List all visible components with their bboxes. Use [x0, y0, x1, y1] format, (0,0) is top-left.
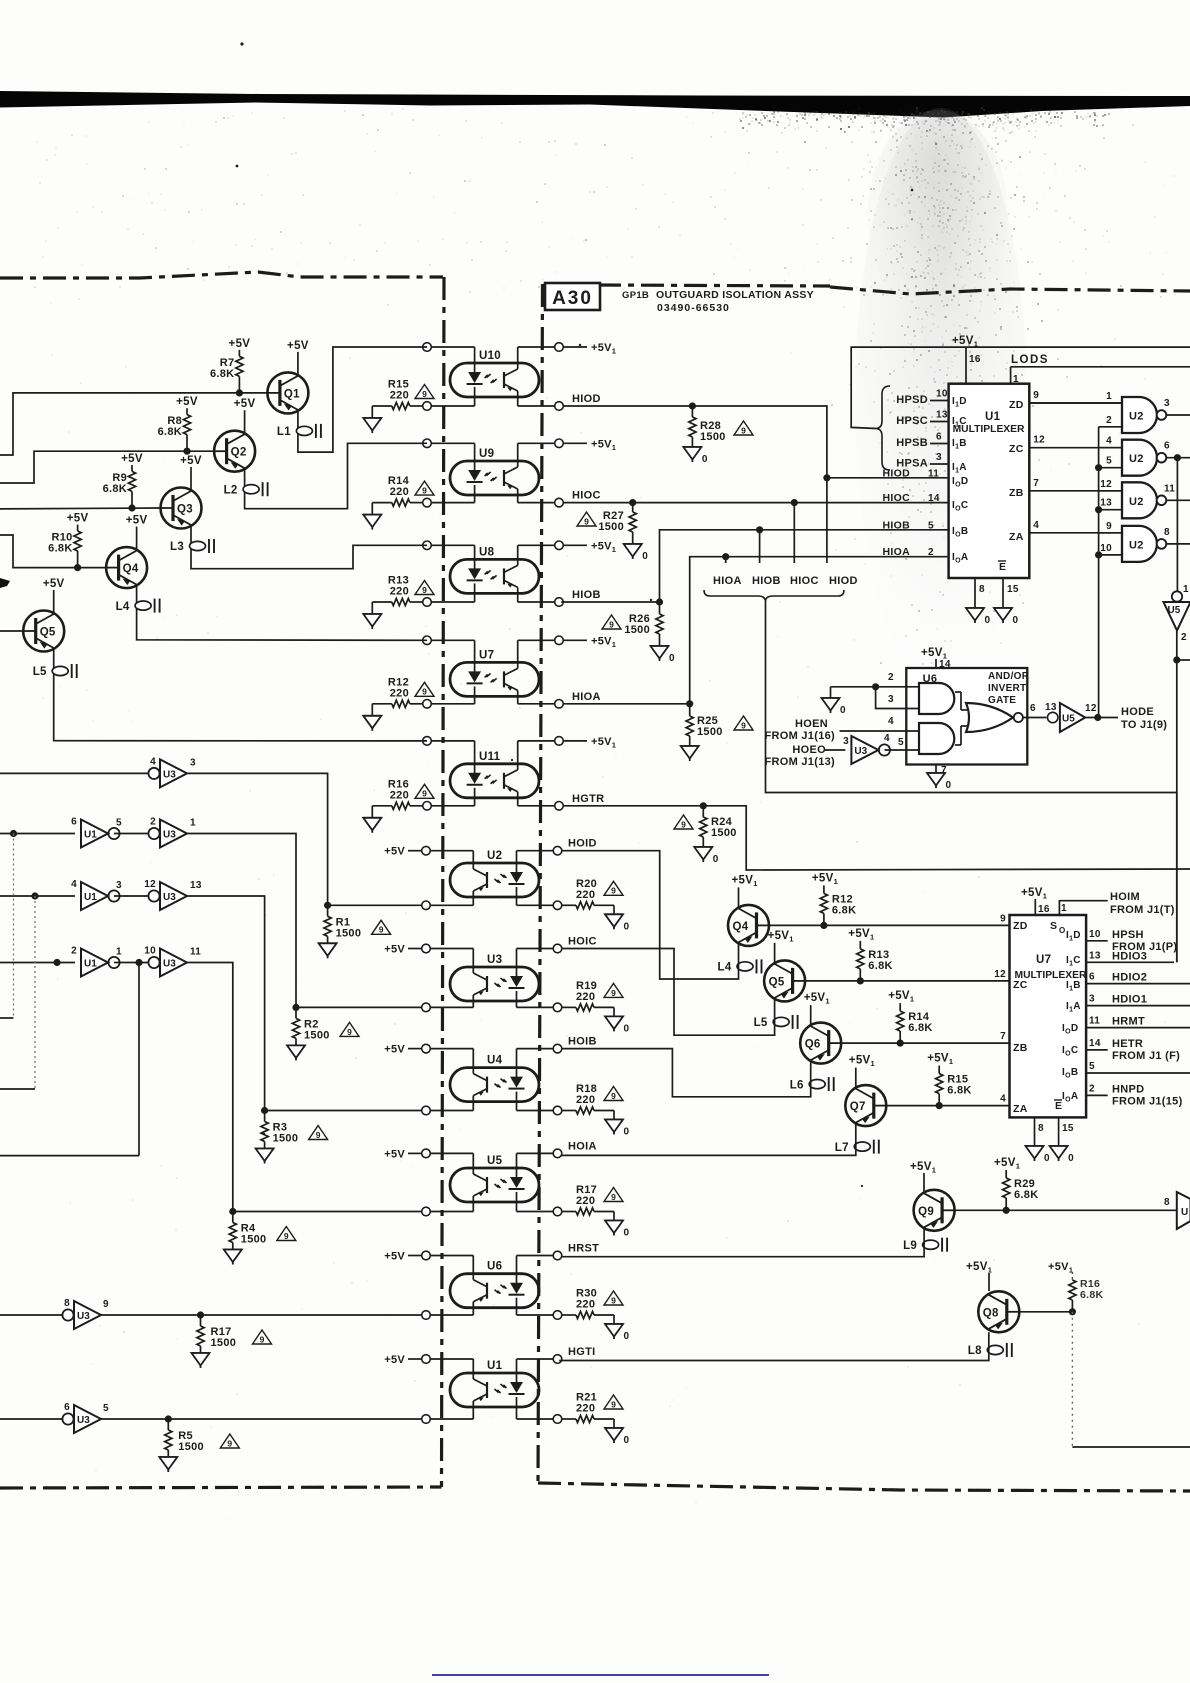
svg-text:14: 14: [939, 659, 951, 670]
svg-text:9: 9: [741, 425, 746, 435]
junction Q7/R15: [936, 1102, 943, 1109]
svg-text:U2: U2: [1129, 496, 1144, 508]
wire U10 collector to +5V1: [518, 347, 559, 369]
U1 pin 15 ground: [994, 578, 1019, 626]
terminal U6 emitter: [422, 1311, 431, 1320]
transistor Q5: [23, 611, 64, 652]
ferrite bead L7: [835, 1140, 879, 1154]
svg-text:Q2: Q2: [231, 447, 247, 459]
svg-text:0: 0: [702, 454, 708, 465]
terminal U7 signal: [555, 700, 564, 709]
svg-text:HOIC: HOIC: [568, 936, 597, 948]
power +5V1 (Q4 collector): [732, 874, 758, 908]
svg-text:HIOD: HIOD: [883, 467, 911, 479]
ground (U6 pins 2,3): [822, 687, 847, 716]
scan artifact: stray marks: [0, 42, 913, 1187]
wire Q4 base to U7: [769, 924, 1010, 926]
svg-text:2: 2: [888, 672, 894, 683]
power +5V1 (Q6 collector): [804, 992, 830, 1026]
power +5V (R10): [67, 513, 89, 525]
warning triangle 9 (R20): [604, 881, 623, 895]
svg-text:HIOA: HIOA: [713, 575, 742, 587]
scan artifact: black bar across top: [0, 91, 1190, 118]
brace HPSD-HPSA: [876, 386, 890, 470]
svg-text:9: 9: [681, 819, 686, 829]
svg-text:GP1B: GP1B: [622, 290, 649, 301]
wire U5 collector +5V: [426, 1153, 473, 1174]
resistor R28 1500: [689, 406, 726, 447]
svg-text:10: 10: [936, 389, 948, 400]
wire U7 pin 14 HETR: [1086, 1038, 1108, 1050]
svg-text:+5V: +5V: [176, 396, 198, 408]
wire U2 input 10: [1099, 543, 1122, 555]
terminal U3 LED anode: [553, 944, 562, 953]
junction Q3 base / R9: [128, 504, 135, 511]
net label HDIO2: [1112, 972, 1147, 984]
ground (R16): [363, 806, 381, 833]
warning triangle 9 (R12): [415, 682, 434, 696]
warning triangle 9 (R5): [220, 1434, 239, 1448]
svg-text:U4: U4: [487, 1055, 503, 1067]
wire HIOB: [561, 530, 948, 602]
wire Q7 emitter to opto: [561, 1123, 856, 1156]
svg-text:HETR: HETR: [1112, 1038, 1143, 1050]
wire U3 LED cathode: [517, 991, 558, 1007]
svg-text:U10: U10: [479, 350, 501, 362]
net label HGTR: [572, 793, 604, 805]
ferrite bead L8: [968, 1343, 1012, 1357]
optocoupler U7: [450, 649, 539, 696]
terminal U11 +5V1: [555, 736, 617, 750]
ground (R19): [605, 1007, 630, 1034]
svg-text:12: 12: [1085, 703, 1097, 714]
svg-text:9: 9: [611, 1091, 616, 1101]
wire U9 LED anode: [427, 443, 475, 471]
svg-text:0: 0: [669, 653, 675, 664]
svg-text:9: 9: [422, 687, 427, 697]
svg-text:U3: U3: [163, 830, 176, 841]
svg-text:+5V: +5V: [43, 578, 65, 590]
svg-text:2: 2: [71, 946, 77, 957]
power +5V1 (R16): [1048, 1261, 1073, 1275]
svg-text:9: 9: [422, 585, 427, 595]
svg-text:HPSC: HPSC: [896, 415, 928, 427]
svg-text:3: 3: [190, 757, 196, 768]
net label HDIO3: [1112, 950, 1147, 962]
wire U2 input 2: [1099, 415, 1122, 427]
junction R4: [229, 1208, 236, 1215]
inverter U3 (2-1): [148, 817, 196, 848]
wire Q9 base to U8 gate: [955, 1197, 1177, 1210]
svg-text:0: 0: [624, 1023, 630, 1034]
wire Q7 base to U7: [886, 1105, 1009, 1107]
junction HIOA label tap: [722, 553, 729, 563]
svg-text:HOEO: HOEO: [792, 744, 826, 756]
svg-text:AND/OR: AND/OR: [988, 671, 1030, 682]
svg-text:9: 9: [316, 1130, 321, 1140]
power +5V (Q5 collector): [43, 578, 65, 614]
svg-text:6: 6: [71, 817, 77, 828]
wire input row 4: [0, 962, 75, 964]
warning triangle 9 (R14): [415, 481, 434, 495]
junction HIOB/R26: [656, 598, 663, 605]
svg-text:3: 3: [116, 880, 122, 891]
ferrite bead L4: [718, 959, 762, 973]
wire HDIO3 to bus riser: [1176, 793, 1178, 963]
warning triangle 9 (R15): [415, 385, 434, 399]
pin label U7 4: [1000, 1094, 1006, 1105]
svg-text:9: 9: [584, 516, 589, 526]
junction Q6/R14: [897, 1040, 904, 1047]
svg-text:HRMT: HRMT: [1112, 1016, 1145, 1028]
warning triangle 9 (R30): [604, 1291, 623, 1305]
svg-text:HDIO3: HDIO3: [1112, 950, 1147, 962]
svg-text:E: E: [1055, 1100, 1062, 1112]
wire U11 emitter out: [518, 792, 559, 806]
wire HIOD: [563, 406, 949, 478]
svg-text:0: 0: [946, 780, 952, 791]
wire U6 LED cathode: [517, 1298, 558, 1315]
svg-text:8: 8: [1164, 527, 1170, 538]
power +5V1 (R14): [888, 990, 914, 1004]
svg-text:8: 8: [1164, 1197, 1170, 1208]
wire U10 LED anode: [427, 347, 475, 373]
wire U1 to U3 row 4: [114, 962, 148, 964]
svg-text:13: 13: [1100, 498, 1112, 509]
svg-text:+5V: +5V: [180, 455, 202, 467]
terminal U8 anode: [423, 541, 432, 550]
svg-text:11: 11: [1164, 483, 1175, 494]
svg-text:13: 13: [936, 410, 948, 421]
pin label U7 12: [994, 969, 1006, 980]
ferrite bead L1: [277, 424, 321, 438]
junction U6 pin2/3: [872, 683, 879, 690]
wire U7 pin 2 HNPD: [1086, 1083, 1108, 1095]
wire U2 input 1: [1029, 391, 1122, 403]
svg-text:Q6: Q6: [805, 1039, 821, 1051]
resistor R8 6.8K: [158, 408, 191, 451]
svg-text:Q8: Q8: [983, 1307, 999, 1319]
svg-text:4: 4: [1033, 520, 1039, 531]
A30 assembly border left-vertical: [538, 284, 543, 1483]
ferrite bead L4: [116, 599, 160, 613]
resistor R7 6.8K: [210, 350, 243, 393]
wire U11 LED anode: [427, 741, 475, 774]
junction U2 pin6 output: [1174, 454, 1181, 461]
U7 internal labels: [1013, 920, 1087, 1115]
svg-text:3: 3: [1164, 398, 1170, 409]
svg-text:6.8K: 6.8K: [1014, 1189, 1038, 1201]
svg-text:Q5: Q5: [769, 976, 785, 988]
junction HODE feedback: [1095, 506, 1102, 513]
net label HOIM FROM J1(T): [1110, 891, 1175, 916]
resistor R30 220: [561, 1288, 614, 1319]
junction U5 output stub: [1173, 656, 1190, 663]
power +5V1 (R15): [927, 1053, 953, 1067]
svg-text:HPSD: HPSD: [896, 394, 928, 406]
terminal U3 +5V: [384, 944, 430, 956]
ground (R28): [683, 447, 708, 465]
svg-text:+5V: +5V: [384, 1044, 405, 1056]
resistor R27 1500: [598, 503, 636, 544]
wire U7 pin 3 HDIO1: [1086, 994, 1190, 1006]
svg-text:HDIO2: HDIO2: [1112, 972, 1147, 984]
NAND gate U2 (12,13-11): [1122, 482, 1166, 518]
net label HOEN FROM J1(16): [764, 718, 835, 742]
optocoupler U9: [450, 448, 539, 495]
wire Q2 emitter to opto: [245, 443, 427, 508]
svg-text:I1C: I1C: [952, 416, 967, 429]
svg-text:L5: L5: [754, 1017, 768, 1029]
svg-text:HIOC: HIOC: [883, 492, 911, 504]
ground (R18): [605, 1111, 630, 1138]
svg-text:8: 8: [979, 584, 985, 595]
svg-text:1: 1: [1061, 903, 1067, 914]
ground (R25): [681, 746, 699, 761]
ground (R14): [363, 503, 381, 530]
svg-text:6.8K: 6.8K: [1080, 1289, 1103, 1301]
wire U3 to U6 pin5: [885, 737, 920, 750]
svg-text:220: 220: [576, 991, 595, 1003]
svg-text:U1: U1: [985, 411, 1001, 423]
svg-text:L7: L7: [835, 1142, 849, 1154]
svg-text:15: 15: [1062, 1123, 1074, 1134]
power +5V (R7): [229, 338, 251, 350]
wire U4 LED cathode: [517, 1092, 558, 1111]
wire HGTR: [563, 806, 1190, 870]
resistor R4 1500: [229, 1212, 266, 1250]
ground (R3): [256, 1149, 274, 1164]
warning triangle 9 (R4): [277, 1227, 296, 1241]
svg-text:0: 0: [624, 1331, 630, 1342]
svg-text:U3: U3: [854, 746, 867, 757]
terminal U10 cathode: [423, 402, 432, 411]
warning triangle 9 (R1): [372, 920, 391, 934]
wire U1 Z output pin 4: [1029, 520, 1122, 533]
svg-text:0: 0: [642, 551, 648, 562]
wire U1 LED anode: [517, 1359, 558, 1383]
optocoupler U11: [450, 751, 539, 798]
A30 assembly border top: [543, 284, 1190, 294]
svg-text:14: 14: [1089, 1038, 1101, 1049]
svg-text:Q3: Q3: [177, 504, 193, 516]
svg-text:U7: U7: [479, 649, 494, 661]
svg-text:9: 9: [611, 988, 616, 998]
svg-text:12: 12: [994, 969, 1006, 980]
optocoupler U4 (lower bank): [450, 1055, 539, 1102]
svg-text:0: 0: [624, 921, 630, 932]
svg-text:ZC: ZC: [1013, 979, 1028, 991]
svg-text:1: 1: [1013, 374, 1019, 385]
wire Q6 emitter to opto: [561, 1049, 811, 1097]
wire faint drop row3 to edge: [0, 896, 35, 1089]
terminal U7 anode: [423, 636, 432, 645]
NAND gate U2 (9,10-8): [1122, 526, 1166, 562]
svg-text:4: 4: [888, 716, 894, 727]
svg-text:3: 3: [936, 452, 942, 463]
svg-text:U3: U3: [487, 954, 502, 966]
ground (R20): [605, 905, 630, 932]
svg-text:1500: 1500: [697, 726, 723, 738]
svg-text:U: U: [1181, 1207, 1189, 1218]
svg-text:3: 3: [843, 736, 849, 747]
svg-text:6.8K: 6.8K: [868, 960, 892, 972]
multiplexer U1 box: [949, 384, 1030, 578]
ferrite bead L5: [754, 1015, 798, 1029]
wire U2 input 13: [1099, 498, 1122, 510]
wire input row 2: [0, 833, 75, 835]
svg-text:HPSB: HPSB: [896, 437, 928, 449]
optocoupler U3 (lower bank): [450, 954, 539, 1001]
svg-text:O: O: [1059, 926, 1066, 935]
wire Q4 emitter to opto: [137, 585, 427, 641]
svg-text:1500: 1500: [178, 1441, 204, 1453]
svg-text:10: 10: [1089, 929, 1101, 940]
resistor R12 6.8K: [820, 885, 856, 925]
inverter U3 (6-5): [62, 1402, 109, 1433]
svg-text:220: 220: [576, 1403, 595, 1415]
wire U3 collector +5V: [426, 949, 473, 974]
svg-text:IOA: IOA: [952, 552, 968, 565]
wire input row 3: [0, 895, 75, 897]
net label FROM J1(15): [1112, 1095, 1183, 1107]
svg-text:L2: L2: [224, 484, 238, 496]
wire U6 pin3: [876, 687, 919, 709]
ferrite bead L3: [170, 539, 214, 553]
terminal U1 LED cathode: [553, 1415, 562, 1424]
svg-text:+5V: +5V: [384, 944, 405, 956]
wire LODS (U1 pin1): [1011, 367, 1190, 385]
terminal U5 LED anode: [553, 1149, 562, 1158]
wire Q4 emitter to opto: [561, 851, 738, 979]
svg-text:FROM J1 (F): FROM J1 (F): [1112, 1050, 1180, 1062]
svg-text:HGTR: HGTR: [572, 793, 604, 805]
svg-text:0: 0: [985, 615, 991, 626]
net label FROM J1 (F): [1112, 1050, 1180, 1062]
resistor R16 220: [372, 778, 423, 809]
svg-text:U3: U3: [163, 959, 176, 970]
svg-text:4: 4: [1106, 436, 1112, 447]
wire U9 LED cathode: [427, 485, 475, 503]
svg-text:U1: U1: [84, 892, 97, 903]
warning triangle 9 (R3): [309, 1126, 328, 1140]
svg-text:2: 2: [1181, 632, 1187, 643]
svg-text:S: S: [1050, 920, 1057, 932]
resistor R19 220: [561, 980, 614, 1011]
svg-text:10: 10: [1100, 543, 1112, 554]
transistor Q7 (outguard): [845, 1085, 886, 1126]
pin label U7 7: [1000, 1031, 1006, 1042]
wire input U3(8): [0, 1314, 62, 1316]
wire U2 LED anode: [517, 851, 558, 873]
wire U10 LED cathode: [427, 387, 475, 406]
resistor R17 220: [561, 1184, 614, 1215]
wire U6 output pin6: [1023, 703, 1047, 718]
junction HIOA/R25: [686, 700, 693, 707]
net label HODE TO J1(9): [1121, 706, 1167, 731]
U6 AND gate B: [919, 723, 954, 754]
svg-text:3: 3: [1089, 994, 1095, 1005]
resistor R12 220: [372, 676, 423, 707]
terminal U1 emitter: [422, 1415, 431, 1424]
warning triangle 9 (R26): [602, 615, 621, 629]
transistor Q1: [267, 372, 308, 413]
svg-text:6: 6: [936, 432, 942, 443]
net label HOID: [568, 838, 597, 850]
wire U7 collector to +5V1: [518, 640, 559, 668]
wire U3 emitter out: [426, 995, 473, 1007]
svg-text:ZA: ZA: [1013, 1103, 1028, 1115]
wire Q2 base: [0, 451, 214, 483]
svg-text:12: 12: [1100, 479, 1112, 490]
svg-text:220: 220: [576, 1195, 595, 1207]
inverter U3 (10-11): [144, 946, 201, 977]
terminal U1 +5V: [384, 1354, 430, 1366]
inverter U5 (1-2): [1164, 584, 1190, 643]
svg-text:Q9: Q9: [918, 1206, 934, 1218]
resistor R25 1500: [686, 704, 723, 746]
wire U6 emitter out: [426, 1302, 473, 1315]
wire U1 to U3 row 2: [114, 833, 148, 835]
wire U1 LED cathode: [517, 1397, 558, 1419]
svg-text:13: 13: [1089, 950, 1101, 961]
net label FROM J1(P): [1112, 941, 1177, 953]
svg-text:L5: L5: [33, 666, 47, 678]
resistor R29 6.8K: [1003, 1170, 1039, 1210]
svg-text:1: 1: [1183, 584, 1189, 595]
svg-text:U3: U3: [77, 1415, 90, 1426]
svg-text:9: 9: [741, 720, 746, 730]
junction HIOB label tap: [756, 526, 763, 563]
ground (R5): [159, 1457, 177, 1472]
optocoupler U10: [450, 350, 539, 397]
resistor R20 220: [561, 878, 614, 909]
junction HIOC label tap: [791, 499, 798, 563]
optocoupler U1 (lower bank): [450, 1360, 539, 1407]
terminal U11 anode: [423, 737, 432, 746]
svg-text:HOID: HOID: [568, 838, 597, 850]
svg-text:1500: 1500: [336, 927, 362, 939]
net label HIOD (bus): [829, 575, 858, 587]
wire U5 LED anode: [517, 1153, 558, 1178]
svg-text:HIOB: HIOB: [752, 575, 781, 587]
svg-text:U9: U9: [479, 448, 494, 460]
svg-text:HOIA: HOIA: [568, 1140, 597, 1152]
svg-text:2: 2: [928, 547, 934, 558]
svg-text:0: 0: [624, 1228, 630, 1239]
ground (R15): [363, 406, 381, 433]
wire Q4 base: [0, 535, 106, 568]
net label HGTI: [568, 1346, 595, 1358]
transistor Q6 (outguard): [800, 1023, 841, 1064]
junction HODE feedback: [1095, 551, 1102, 558]
resistor R24 1500: [700, 806, 737, 847]
resistor R18 220: [561, 1083, 614, 1114]
terminal U5 emitter: [422, 1207, 431, 1216]
wire HIOA-D bus line: [766, 601, 1177, 793]
inverter U1 (2-1): [71, 946, 122, 977]
svg-text:U2: U2: [1129, 411, 1144, 423]
wire HOIM (U7 pin1): [1059, 901, 1107, 915]
wire Q8 base: [1019, 1311, 1072, 1313]
net label HOEO FROM J1(13): [764, 744, 835, 768]
svg-text:U1: U1: [84, 959, 97, 970]
junction Q8/R16: [1069, 1308, 1076, 1315]
wire HPSB pin6: [896, 432, 948, 450]
wire U7 emitter out: [518, 690, 559, 703]
inverter U3 (4-3): [148, 756, 196, 787]
svg-text:IOD: IOD: [1062, 1023, 1078, 1036]
